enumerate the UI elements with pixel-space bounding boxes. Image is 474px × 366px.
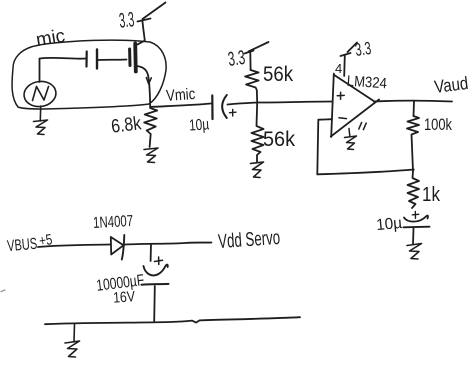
JFET source arrow xyxy=(146,78,151,85)
svg-text:mic: mic xyxy=(35,26,67,51)
op-amp + input symbol xyxy=(337,92,344,99)
resistor 100k xyxy=(407,116,419,171)
svg-text:10µ: 10µ xyxy=(189,116,210,134)
wire: cap to gate xyxy=(98,59,127,62)
wire: Vmic node to C2 xyxy=(150,104,211,108)
ground on bottom rail xyxy=(65,324,80,358)
diode 1N4007 xyxy=(111,235,125,260)
label 3.3 (transistor supply) xyxy=(118,8,135,32)
label 1N4007 xyxy=(93,213,134,232)
svg-text:100k: 100k xyxy=(424,115,452,134)
svg-text:1N4007: 1N4007 xyxy=(93,213,134,232)
3.3 supply tick (divider) xyxy=(245,42,269,70)
electret element (AC source with N) xyxy=(22,79,57,108)
op-amp U1 triangle xyxy=(331,74,379,138)
label 10u (output RC) xyxy=(375,215,402,234)
capacitor 10000uF plates xyxy=(142,265,169,285)
ground below electret xyxy=(34,106,48,135)
svg-text:56k: 56k xyxy=(263,128,295,151)
pin 4 label xyxy=(335,61,342,76)
svg-text:Vdd Servo: Vdd Servo xyxy=(217,227,280,253)
svg-text:10µ: 10µ xyxy=(375,215,402,234)
wire: op-amp output to Vaud xyxy=(374,100,452,103)
label 3.3 (divider supply) xyxy=(227,47,247,71)
pin 4 supply wire xyxy=(343,55,346,76)
label 10u xyxy=(189,116,210,134)
svg-text:Vmic: Vmic xyxy=(166,86,196,105)
wire: cap to ground xyxy=(412,229,415,245)
label Vdd Servo xyxy=(217,227,280,253)
label LM324 xyxy=(346,73,387,93)
svg-text:3.3: 3.3 xyxy=(354,38,373,60)
svg-text:VBUS: VBUS xyxy=(7,236,38,256)
svg-text:4: 4 xyxy=(335,61,342,76)
label 3.3 (op-amp supply) xyxy=(354,38,373,60)
wire: source down to Vmic node xyxy=(137,66,151,107)
JFET Q1 (gate/channel bars) xyxy=(130,44,136,72)
label 56k lower xyxy=(263,128,295,151)
svg-text:Vaud: Vaud xyxy=(433,73,469,97)
wire: diode to Vdd Servo xyxy=(124,243,211,245)
label 16V xyxy=(113,288,136,306)
label Vaud xyxy=(433,73,469,97)
op-amp - input symbol xyxy=(339,117,347,120)
bottom ground rail xyxy=(45,317,300,324)
wire: node down to cap xyxy=(150,244,152,261)
wire: cap to bottom rail xyxy=(153,286,156,322)
capacitor (mic internal) xyxy=(87,50,98,69)
wire: source top lead xyxy=(40,58,87,82)
svg-text:6.8k: 6.8k xyxy=(110,113,143,138)
svg-text:56k: 56k xyxy=(263,63,293,86)
capacitor 10000uF plus sign xyxy=(155,257,163,265)
scan speck xyxy=(1,290,5,292)
ground below 6.8k xyxy=(144,148,158,163)
pin 11 marks xyxy=(359,123,366,130)
svg-text:1k: 1k xyxy=(422,184,441,206)
wire: main node to op-amp + xyxy=(257,102,331,103)
label 100k xyxy=(424,115,452,134)
label 56k upper xyxy=(263,63,293,86)
resistor 1k xyxy=(408,171,420,208)
svg-text:3.3: 3.3 xyxy=(118,8,135,32)
label VBUS +5 xyxy=(7,231,54,255)
wire: VBUS to diode xyxy=(38,245,111,248)
ground below output cap xyxy=(407,244,422,260)
capacitor 10u (output RC) xyxy=(404,212,430,228)
resistor 56k lower xyxy=(252,103,264,163)
mic label xyxy=(35,26,67,51)
resistor 56k upper xyxy=(245,70,259,103)
wire: drain to 3.3 supply xyxy=(138,22,145,45)
svg-text:3.3: 3.3 xyxy=(227,47,247,71)
wire: C2 to divider node xyxy=(228,103,258,105)
wire: output node down xyxy=(413,102,416,117)
mic enclosure outline xyxy=(12,40,166,109)
label 1k xyxy=(422,184,441,206)
label 10000uF xyxy=(95,272,145,295)
svg-text:LM324: LM324 xyxy=(346,73,387,93)
3.3 supply tick (op-amp) xyxy=(341,43,358,57)
ground below op-amp xyxy=(345,129,357,150)
capacitor 10u (coupling) xyxy=(212,95,236,119)
feedback wire loop xyxy=(317,119,414,174)
ground below 56k lower xyxy=(251,162,264,178)
label 6.8k xyxy=(110,113,143,138)
resistor 6.8k xyxy=(144,108,157,147)
svg-text:16V: 16V xyxy=(113,288,136,306)
3.3 supply tick (transistor) xyxy=(138,3,166,22)
label Vmic xyxy=(166,86,196,105)
